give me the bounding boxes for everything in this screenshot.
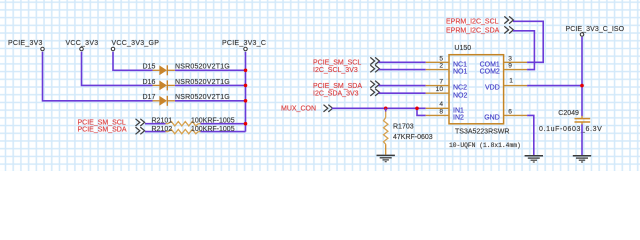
svg-text:D15: D15: [143, 64, 156, 71]
svg-text:7: 7: [439, 79, 443, 86]
svg-text:47KRF-0603: 47KRF-0603: [393, 134, 433, 141]
svg-text:10-UQFN (1.8x1.4mm): 10-UQFN (1.8x1.4mm): [449, 142, 521, 149]
svg-text:VCC_3V3: VCC_3V3: [66, 40, 99, 47]
ground below pin6: [525, 156, 543, 162]
ground below capacitor: [573, 156, 591, 162]
wire EPRM_I2C_SCL to pin3: [513, 21, 543, 62]
svg-text:NC1: NC1: [453, 61, 467, 68]
svg-text:9: 9: [508, 63, 512, 70]
svg-text:NO2: NO2: [453, 92, 468, 99]
junction dot D17/bus: [244, 99, 248, 103]
ground below R1703: [377, 155, 395, 161]
svg-text:100KRF-1005: 100KRF-1005: [191, 126, 235, 133]
junction dot MUX/R1703: [384, 107, 388, 111]
pin 5 stub: [426, 61, 449, 63]
svg-text:1: 1: [509, 78, 513, 85]
wire D15 cathode to bus: [175, 69, 246, 71]
junction dot D15/bus: [244, 69, 248, 73]
wire R2102 left: [145, 131, 166, 133]
wire R2101 right: [201, 123, 246, 125]
svg-text:10: 10: [436, 86, 444, 93]
wire drop to pin8: [417, 108, 426, 115]
junction dot MUX/pin8: [415, 107, 419, 111]
svg-text:PCIE_SM_SCL: PCIE_SM_SCL: [313, 60, 361, 67]
svg-text:VDD: VDD: [485, 85, 500, 92]
svg-text:NSR0520V2T1G: NSR0520V2T1G: [175, 94, 230, 101]
svg-text:0.1uF-0603_6.3V: 0.1uF-0603_6.3V: [539, 126, 602, 133]
port chevron EPRM_I2C_SDA: [504, 26, 513, 33]
svg-text:5: 5: [439, 55, 443, 62]
wire MUX_CON to pin4: [332, 107, 426, 109]
svg-text:3: 3: [508, 55, 512, 62]
svg-text:I2C_SCL_3V3: I2C_SCL_3V3: [313, 67, 358, 74]
diode D15: [143, 64, 230, 76]
port chevron EPRM_I2C_SCL: [504, 16, 513, 23]
wire VCC_3V3 to D16 anode: [82, 52, 153, 86]
wire cap to ground: [581, 124, 583, 155]
power port PCIE_3V3: [8, 40, 44, 51]
svg-text:IN2: IN2: [453, 115, 464, 122]
pin 4 stub: [426, 107, 449, 109]
wire EPRM_I2C_SDA to pin9: [513, 31, 534, 70]
port chevron pin2 row: [370, 65, 379, 72]
svg-text:EPRM_I2C_SCL: EPRM_I2C_SCL: [446, 19, 499, 26]
svg-text:C2049: C2049: [558, 110, 579, 117]
resistor R2101: [152, 117, 235, 126]
junction dot D16/bus: [244, 84, 248, 88]
diode D17: [143, 94, 230, 106]
pin 8 stub: [426, 114, 449, 116]
wire D17 cathode to bus: [175, 100, 246, 102]
port chevron pin5 row: [370, 57, 379, 64]
svg-text:R2102: R2102: [152, 126, 173, 133]
svg-text:6: 6: [508, 108, 512, 115]
svg-text:PCIE_3V3_C_ISO: PCIE_3V3_C_ISO: [566, 26, 625, 33]
svg-text:8: 8: [439, 108, 443, 115]
wire PCIE_3V3 to D17 anode: [43, 52, 153, 101]
wire R2101 left: [145, 123, 166, 125]
IC U150 box: [449, 55, 504, 124]
svg-text:NSR0520V2T1G: NSR0520V2T1G: [175, 64, 230, 71]
power port PCIE_3V3_C: [222, 40, 266, 51]
svg-text:NSR0520V2T1G: NSR0520V2T1G: [175, 79, 230, 86]
svg-text:4: 4: [439, 101, 443, 108]
wire to pin10: [379, 92, 426, 94]
svg-text:EPRM_I2C_SDA: EPRM_I2C_SDA: [446, 28, 500, 35]
svg-text:IN1: IN1: [453, 107, 464, 114]
wire to pin7: [379, 85, 426, 87]
svg-text:NO1: NO1: [453, 69, 468, 76]
pin 10 stub: [426, 92, 449, 94]
svg-text:R1703: R1703: [393, 124, 414, 131]
pin 3 stub: [504, 61, 527, 63]
svg-text:GND: GND: [484, 115, 500, 122]
svg-text:TS3A5223RSWR: TS3A5223RSWR: [455, 129, 509, 136]
wire PCIE_3V3_C_ISO down: [581, 37, 583, 116]
svg-text:NC2: NC2: [453, 85, 467, 92]
svg-text:MUX_CON: MUX_CON: [281, 106, 316, 113]
port chevron pin7 row: [370, 81, 379, 88]
wire pin6 to ground: [527, 115, 534, 155]
svg-text:PCIE_3V3: PCIE_3V3: [8, 40, 43, 47]
port chevron PCIE_SM_SDA: [136, 127, 145, 134]
svg-text:PCIE_SM_SDA: PCIE_SM_SDA: [78, 127, 127, 134]
power port VCC_3V3_GP: [111, 40, 159, 51]
capacitor C2049: [539, 110, 602, 133]
svg-text:R2101: R2101: [152, 117, 173, 124]
power port VCC_3V3: [66, 40, 99, 51]
svg-text:COM1: COM1: [480, 61, 500, 68]
port chevron pin10 row: [370, 89, 379, 96]
svg-text:VCC_3V3_GP: VCC_3V3_GP: [112, 40, 160, 47]
svg-text:PCIE_SM_SDA: PCIE_SM_SDA: [313, 83, 362, 90]
svg-text:PCIE_3V3_C: PCIE_3V3_C: [222, 40, 266, 47]
port chevron PCIE_SM_SCL: [136, 119, 145, 126]
power port PCIE_3V3_C_ISO: [566, 26, 625, 36]
wire VDD to cap rail: [527, 85, 582, 87]
svg-text:D16: D16: [143, 79, 156, 86]
pin 9 stub: [504, 69, 527, 71]
pin 6 stub: [504, 114, 527, 116]
junction dot R2101/bus: [244, 122, 248, 126]
wire R2102 right: [201, 131, 246, 133]
svg-text:100KRF-1005: 100KRF-1005: [191, 117, 235, 124]
resistor R2102: [152, 126, 235, 134]
wire D16 cathode to bus: [175, 84, 246, 86]
wire to pin2: [379, 69, 426, 71]
svg-text:D17: D17: [143, 94, 156, 101]
svg-text:COM2: COM2: [480, 69, 500, 76]
resistor R1703: [384, 108, 433, 154]
wire VCC_3V3_GP to D15 anode: [113, 52, 153, 71]
wire to pin5: [379, 61, 426, 63]
port chevron MUX_CON: [324, 105, 333, 112]
svg-text:U150: U150: [454, 45, 471, 52]
pin 1 stub: [504, 85, 527, 87]
pin 7 stub: [426, 85, 449, 87]
svg-text:2: 2: [439, 63, 443, 70]
pin 2 stub: [426, 69, 449, 71]
svg-text:I2C_SDA_3V3: I2C_SDA_3V3: [313, 90, 359, 97]
wire bus PCIE_3V3_C vertical: [245, 52, 247, 132]
junction dot VDD/cap: [580, 84, 584, 88]
diode D16: [143, 79, 230, 91]
